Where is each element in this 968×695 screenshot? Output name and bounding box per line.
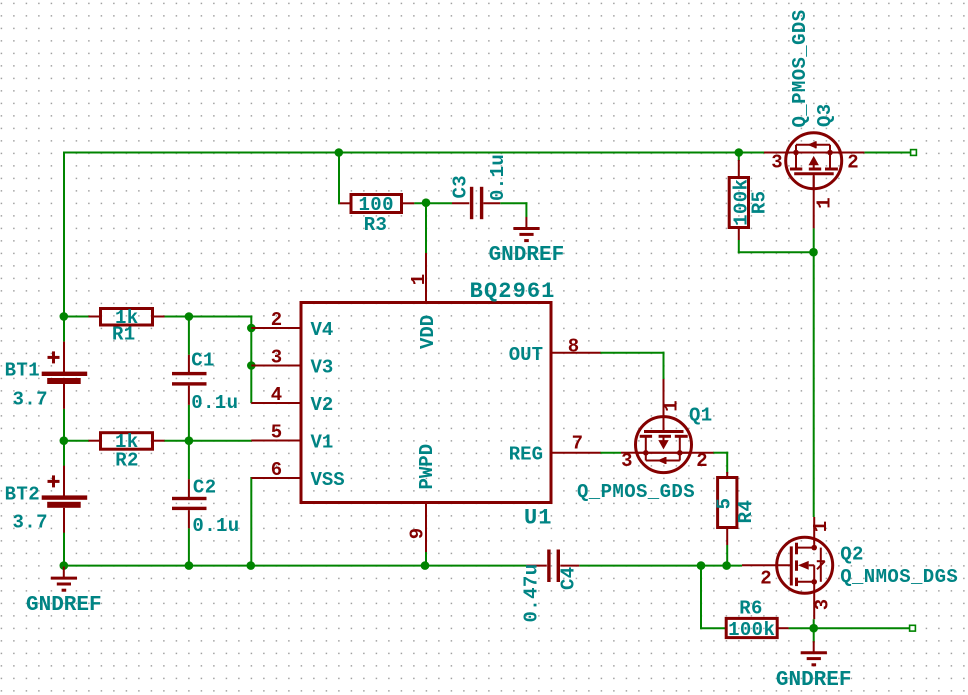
svg-text:1: 1 xyxy=(661,400,683,411)
wire bottom bus left of C4 xyxy=(63,565,527,567)
svg-text:6: 6 xyxy=(271,459,282,481)
junction R2 / C1 / C2 xyxy=(185,436,194,445)
svg-text:1: 1 xyxy=(810,521,832,532)
capacitor C1 xyxy=(172,349,238,413)
wire Q3 drain down to Q2 xyxy=(813,251,815,517)
svg-text:C2: C2 xyxy=(193,477,217,499)
wire PWPD drop xyxy=(425,552,427,567)
svg-text:U1: U1 xyxy=(524,506,553,531)
svg-text:GNDREF: GNDREF xyxy=(26,594,102,617)
node open wire end (bottom right) xyxy=(910,625,916,631)
battery BT1 xyxy=(5,342,88,411)
resistor R3 xyxy=(340,194,414,236)
junction R1 / C1 xyxy=(185,312,194,321)
svg-text:GNDREF: GNDREF xyxy=(489,244,565,267)
svg-text:R4: R4 xyxy=(735,500,757,524)
wire R5 bottom to Q3 drain xyxy=(738,240,815,253)
wire bottom bus right of C4 xyxy=(579,565,742,567)
svg-text:C1: C1 xyxy=(191,349,215,371)
svg-text:V4: V4 xyxy=(311,319,334,341)
wire OUT to Q1 gate xyxy=(600,352,665,380)
Q3 labels xyxy=(789,9,836,127)
Q1 labels xyxy=(577,404,713,503)
svg-text:5: 5 xyxy=(271,422,282,444)
U1 ref label xyxy=(524,506,553,531)
svg-text:VSS: VSS xyxy=(311,469,345,491)
junction R6 / Q2 source / gnd xyxy=(809,624,818,633)
Q2 pin numbers xyxy=(760,521,833,610)
wire V4/V3/V2 vertical xyxy=(250,316,252,404)
wire R1 right to pins xyxy=(164,316,252,318)
junction top bus / R3 xyxy=(335,148,344,157)
svg-text:3: 3 xyxy=(812,599,834,610)
svg-text:0.1u: 0.1u xyxy=(191,392,238,414)
svg-text:BQ2961: BQ2961 xyxy=(470,279,556,304)
svg-text:3: 3 xyxy=(771,151,782,173)
wire C3 to gnd corner xyxy=(500,202,527,217)
svg-text:2: 2 xyxy=(271,309,282,331)
wire Q2 pin3 to gnd junction xyxy=(813,619,815,642)
resistor R5 xyxy=(729,160,770,240)
svg-text:100k: 100k xyxy=(728,619,775,641)
wire C2 bottom lead xyxy=(188,528,190,566)
Q3 pin numbers xyxy=(771,151,858,208)
svg-text:9: 9 xyxy=(407,528,429,539)
svg-text:R1: R1 xyxy=(112,323,136,345)
wire R3 junction drop xyxy=(338,153,340,205)
svg-text:PWPD: PWPD xyxy=(416,444,438,490)
svg-text:3: 3 xyxy=(621,450,632,472)
svg-text:C4: C4 xyxy=(557,566,579,590)
wire R1 left xyxy=(63,316,89,318)
wire R3 to C3 xyxy=(414,202,452,204)
junction BT2 / R2 xyxy=(60,436,69,445)
junction bottom bus / C2 xyxy=(185,561,194,570)
svg-text:V1: V1 xyxy=(311,432,334,454)
junction bottom bus / R6 branch xyxy=(697,561,706,570)
junction R3 / C3 / VDD xyxy=(422,198,431,207)
svg-text:8: 8 xyxy=(568,336,579,358)
svg-text:R6: R6 xyxy=(739,597,763,619)
resistor R2 xyxy=(89,431,165,471)
svg-text:Q_PMOS_GDS: Q_PMOS_GDS xyxy=(577,481,695,503)
svg-text:3.7: 3.7 xyxy=(13,512,48,534)
svg-text:R5: R5 xyxy=(748,190,770,214)
Q2 labels xyxy=(840,543,958,588)
junction bottom bus / PWPD xyxy=(421,561,430,570)
ground GNDREF (C3) xyxy=(489,217,565,267)
svg-text:Q_NMOS_DGS: Q_NMOS_DGS xyxy=(840,566,958,588)
op-amp U1 body (IC BQ2961) xyxy=(251,253,600,552)
resistor R1 xyxy=(89,307,165,346)
svg-text:BT1: BT1 xyxy=(5,360,40,382)
transistor Q1 xyxy=(621,379,714,473)
svg-text:0.1u: 0.1u xyxy=(487,154,509,201)
transistor Q3 xyxy=(764,133,864,229)
wire R2 left xyxy=(63,440,89,442)
wire VDD drop xyxy=(425,202,427,253)
junction BT1 / R1 xyxy=(60,312,69,321)
svg-text:2: 2 xyxy=(760,567,771,589)
svg-text:OUT: OUT xyxy=(509,344,543,366)
svg-text:7: 7 xyxy=(572,433,583,455)
svg-text:R3: R3 xyxy=(364,214,388,236)
wire R5 top stub xyxy=(738,153,740,162)
U1 pin numbers xyxy=(271,274,583,539)
wire R2 right to V1 xyxy=(164,440,252,442)
wire Q3 pin3 lead xyxy=(738,152,764,154)
svg-text:5: 5 xyxy=(713,498,735,510)
wire R6 row to open end xyxy=(814,627,910,629)
U1 value label BQ2961 xyxy=(470,279,556,304)
svg-text:1: 1 xyxy=(814,197,836,208)
capacitor C4 xyxy=(520,550,579,623)
junction Q3 drain / R5 xyxy=(809,248,818,257)
wire VSS drop xyxy=(250,477,252,567)
U1 pin names xyxy=(311,315,544,491)
resistor R6 xyxy=(726,597,789,641)
ground GNDREF (bottom right) xyxy=(776,641,852,692)
svg-text:Q2: Q2 xyxy=(840,543,864,565)
capacitor C2 xyxy=(172,477,240,537)
wire Q1 pin2 to R4 xyxy=(713,452,728,474)
svg-text:3.7: 3.7 xyxy=(13,389,48,411)
junction bottom bus / R4 xyxy=(722,561,731,570)
svg-text:Q1: Q1 xyxy=(689,404,713,426)
junction bottom bus / VSS xyxy=(247,561,256,570)
svg-text:0.1u: 0.1u xyxy=(192,515,239,537)
node open wire end (top right) xyxy=(911,150,917,156)
svg-text:1: 1 xyxy=(408,274,430,285)
wire REG to Q1 pin3 xyxy=(600,452,621,454)
wire Q3 pin1 lead xyxy=(813,228,815,253)
ground GNDREF (bottom left) xyxy=(26,567,102,618)
svg-text:2: 2 xyxy=(696,450,707,472)
svg-text:R2: R2 xyxy=(115,449,139,471)
svg-text:C3: C3 xyxy=(449,175,471,199)
svg-text:4: 4 xyxy=(271,384,282,406)
junction top bus / R5 xyxy=(735,148,744,157)
Q1 pin numbers xyxy=(621,400,708,472)
wire C1 bottom lead xyxy=(188,405,190,442)
wire junction to R6 row xyxy=(700,565,727,630)
capacitor C3 xyxy=(449,154,509,219)
svg-text:2: 2 xyxy=(847,151,858,173)
junction V3 pin xyxy=(247,361,256,370)
svg-text:VDD: VDD xyxy=(417,315,439,349)
battery BT2 xyxy=(5,466,88,534)
wire C2 top lead xyxy=(188,440,190,480)
wire top horizontal bus xyxy=(63,152,764,154)
junction V4 pin xyxy=(247,324,256,333)
wire R4 bottom lead xyxy=(726,545,728,567)
svg-text:Q_PMOS_GDS: Q_PMOS_GDS xyxy=(789,9,811,127)
svg-text:V2: V2 xyxy=(311,394,334,416)
svg-text:GNDREF: GNDREF xyxy=(776,669,852,692)
transistor Q2 xyxy=(742,517,833,619)
svg-text:3: 3 xyxy=(271,347,282,369)
wire R6 right xyxy=(789,627,814,629)
resistor R4 xyxy=(713,472,757,545)
svg-text:100: 100 xyxy=(358,194,393,216)
wire left vertical (battery stack) xyxy=(63,152,65,567)
wire Q3 pin2 to open end xyxy=(864,152,910,154)
svg-text:BT2: BT2 xyxy=(5,484,40,506)
svg-text:Q3: Q3 xyxy=(814,103,836,127)
svg-text:REG: REG xyxy=(509,444,543,466)
junction bottom bus / gnd left xyxy=(60,561,69,570)
wire C1 top lead xyxy=(188,316,190,355)
svg-text:V3: V3 xyxy=(311,357,334,379)
svg-text:0.47u: 0.47u xyxy=(520,563,542,622)
